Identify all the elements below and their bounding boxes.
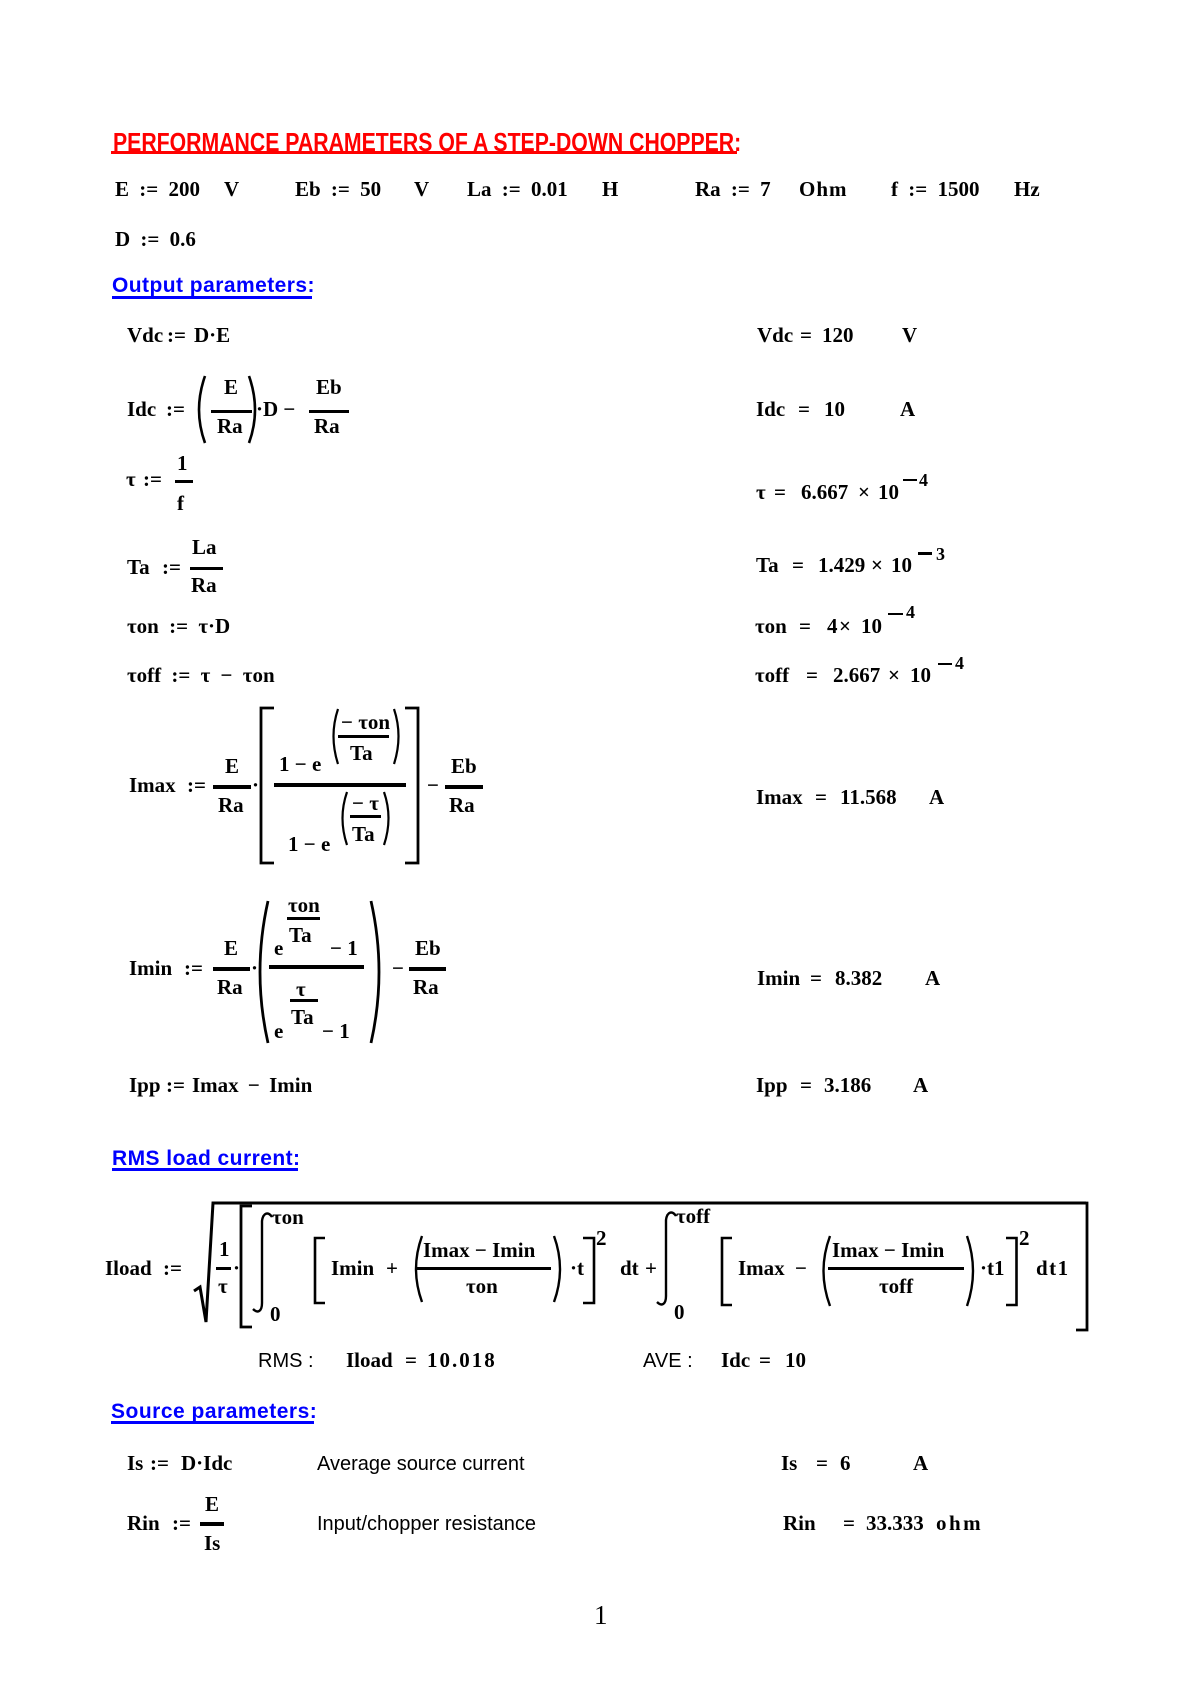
Source parameters heading bbox=[111, 1401, 317, 1422]
Imax exponent parens bottom bbox=[343, 792, 348, 845]
integral 2 bbox=[657, 1213, 676, 1305]
Imin equation bbox=[129, 958, 172, 979]
Iload inner brackets 1 bbox=[315, 1238, 325, 1303]
RMS load current heading bbox=[112, 1148, 301, 1169]
Iload inner brackets 2 bbox=[722, 1238, 732, 1305]
Iload equation bbox=[105, 1258, 152, 1279]
Rin equation bbox=[127, 1513, 160, 1534]
Vdc equation bbox=[127, 325, 163, 346]
RMS / AVE values bbox=[258, 1351, 314, 1371]
Iload fraction parens 2 bbox=[824, 1236, 831, 1306]
Iload radical and overline bbox=[194, 1203, 1086, 1322]
tau equation bbox=[126, 469, 136, 490]
Imax exponent parens top bbox=[334, 709, 339, 764]
tau-off equation bbox=[127, 665, 275, 686]
Imax brackets bbox=[261, 708, 274, 863]
Ipp equation bbox=[129, 1075, 161, 1096]
tau-on equation bbox=[127, 616, 230, 637]
Imin big parens bbox=[260, 901, 268, 1043]
title bbox=[113, 129, 741, 155]
Iload fraction parens 1 bbox=[416, 1236, 422, 1302]
Idc equation bbox=[127, 399, 156, 420]
Iload outer brackets bbox=[241, 1206, 252, 1327]
Idc parens bbox=[199, 376, 205, 443]
given parameters row bbox=[115, 179, 200, 200]
Output parameters heading bbox=[112, 275, 315, 296]
Imax equation bbox=[129, 775, 176, 796]
page number bbox=[594, 1602, 608, 1629]
Is equation bbox=[127, 1453, 143, 1474]
Ta equation bbox=[127, 557, 150, 578]
integral 1 bbox=[253, 1214, 272, 1312]
